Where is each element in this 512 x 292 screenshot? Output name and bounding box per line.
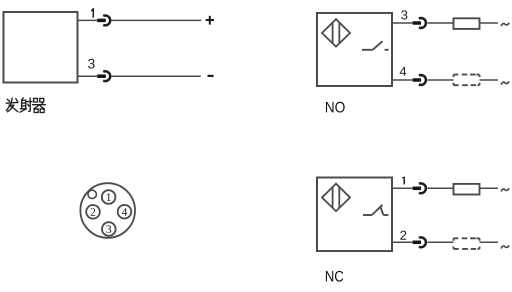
plug contact pin1 [97,19,106,23]
socket arc pin2 (NC) [419,237,426,247]
NC contact symbol [363,205,388,215]
connector pin 4 circle [118,205,132,219]
wire pin4 (NO) box to plug [392,79,413,81]
wire pin3 (NO) load to AC [480,22,499,24]
sensor symbol chords (NC box) [332,187,334,208]
射 [22,98,24,100]
proximity sensor symbol (NO box): diamond [322,19,350,46]
socket arc pin3 [103,71,110,81]
connector pin 3 circle [102,222,116,236]
load resistor (dashed) pin4 NO [454,75,480,86]
wire pin1 (NC) box to plug [392,187,413,189]
NO sensor box [317,13,392,86]
AC tilde pin3 NO [501,23,509,26]
发 [7,99,9,101]
wire pin4 (NO) load to AC [480,79,499,81]
AC tilde pin4 NO [501,81,509,84]
wire pin4 (NO) arc to load [427,79,453,81]
connector pin 1 circle [102,190,116,204]
minus terminal [208,75,214,77]
wire pin1 (NC) arc to load [427,187,453,189]
pin 1 label [91,8,94,18]
label 发射器 (transmitter) hand-drawn glyph strokes [6,98,45,113]
label NC [326,271,343,282]
plug contact pin3 [97,74,106,78]
pin 3 label (NO box) [401,10,407,19]
connector face: outer circle [80,183,135,238]
socket arc pin4 (NO) [419,75,426,85]
wire pin3 (NO) box to plug [392,22,413,24]
NO contact symbol [362,41,389,50]
pin 2 label (NC box) [400,231,406,240]
transmitter box 发射器 [4,12,78,83]
wire pin2 (NC) load to AC [480,241,499,243]
connector keying notch [88,190,96,198]
plug contact pin1 (NC) [413,187,421,191]
sensor symbol chords (NO box) [332,23,334,44]
pin 4 label (NO box) [400,67,407,76]
load resistor (solid) pin3 NO [454,18,480,29]
器 [34,98,38,102]
plug contact pin4 (NO) [413,78,421,82]
wire pin2 (NC) box to plug [392,241,413,243]
proximity sensor symbol (NC box): diamond [322,184,350,211]
NC sensor box [317,178,392,252]
plug contact pin2 (NC) [413,241,421,245]
load resistor (solid) pin1 NC [454,184,480,195]
label NO [326,102,345,113]
wire pin1 (NC) load to AC [480,187,499,189]
AC tilde pin1 NC [501,188,509,191]
wire pin3 from box to plug [78,75,98,77]
plug contact pin3 (NO) [413,21,421,25]
wire pin1 to plus terminal [112,19,202,21]
connector pin 2 circle [86,205,100,219]
wire pin3 to minus terminal [112,75,201,77]
wire pin2 (NC) arc to load [427,241,453,243]
AC tilde pin2 NC [501,245,509,248]
wire pin1 from box to plug [78,19,98,21]
socket arc pin1 (NC) [419,183,426,193]
socket arc pin3 (NO) [419,18,426,28]
plus terminal [206,16,214,25]
pin 1 label (NC box) [402,177,405,185]
wire pin3 (NO) arc to load [427,22,453,24]
socket arc pin1 [103,15,110,25]
pin 3 label [88,59,95,69]
load resistor (dashed) pin2 NC [454,238,480,249]
